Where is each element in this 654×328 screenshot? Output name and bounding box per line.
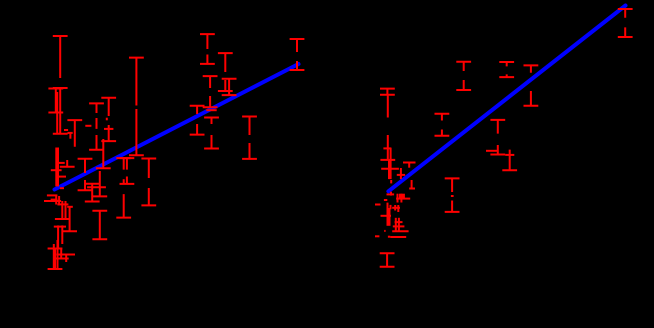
error bar x=211 <box>204 118 219 149</box>
error bar x=498 <box>490 120 505 155</box>
error bar x=60 <box>53 88 68 134</box>
stem <box>69 132 71 138</box>
point dash <box>68 132 73 134</box>
error bar x=55 <box>48 249 63 270</box>
stem <box>55 196 57 205</box>
left panel fit line <box>55 64 299 190</box>
error bar x=92 <box>85 184 100 202</box>
wide cap dash <box>44 200 61 202</box>
cap dash <box>395 221 403 223</box>
stem bit <box>123 179 125 184</box>
cap dash <box>56 254 75 256</box>
stem <box>389 208 391 226</box>
stem bit <box>390 180 392 183</box>
error bar small x=387 <box>380 89 395 95</box>
stem <box>395 218 397 231</box>
error bar x=100a <box>92 171 107 196</box>
right panel fit line <box>388 6 625 192</box>
error bar x=100b <box>92 211 107 240</box>
point dash near line tip <box>60 187 64 189</box>
error bar x=96 <box>89 103 104 149</box>
error bar x=510 <box>502 150 517 171</box>
error bar x=225 <box>218 53 233 91</box>
wide cap dash <box>87 186 106 188</box>
error bar stem thick <box>55 148 57 187</box>
error bar x=387c <box>380 253 395 267</box>
overlapping stem <box>56 92 58 134</box>
overlapping stem <box>57 148 59 187</box>
corner dash <box>409 188 415 190</box>
point dot <box>451 195 454 197</box>
cap dash <box>381 215 392 217</box>
point dash <box>505 154 514 156</box>
error bar x=103 <box>96 139 111 168</box>
point dash <box>104 128 113 130</box>
error bar x=452 <box>445 178 460 212</box>
dot <box>384 230 385 232</box>
stem bit <box>390 205 392 209</box>
point dash <box>64 129 68 131</box>
point dash <box>384 199 387 201</box>
error bar x=149 <box>141 159 156 206</box>
cap dash <box>54 226 66 228</box>
stem <box>397 194 399 203</box>
stem bit <box>390 192 392 196</box>
error bar x=62 <box>55 201 70 219</box>
error bar x=229 <box>222 79 237 95</box>
cap dash <box>57 203 68 205</box>
edge dash <box>375 204 381 206</box>
stem <box>65 255 67 263</box>
error bar x=124 <box>116 158 131 218</box>
stem <box>58 196 60 205</box>
point blob <box>399 194 405 198</box>
error bar x=297 <box>290 39 305 70</box>
cap dash <box>51 169 62 171</box>
cap dash <box>47 194 58 196</box>
dot <box>388 236 390 238</box>
cap dash <box>393 225 405 227</box>
point dash <box>57 176 66 178</box>
stem <box>400 194 402 203</box>
stem bit <box>394 205 396 211</box>
error bar x=56 <box>48 89 63 113</box>
point dash <box>67 206 73 208</box>
cap dash <box>486 150 498 152</box>
error bar x=387 <box>380 95 395 160</box>
point dash <box>392 207 400 209</box>
stem <box>387 203 389 226</box>
error bar x=75 <box>67 120 82 147</box>
error bar x=249 <box>242 117 257 159</box>
stem <box>53 244 55 269</box>
edge dash <box>375 235 379 237</box>
cap dash <box>51 199 58 201</box>
point dash <box>397 174 405 176</box>
point dash <box>85 125 91 127</box>
error bar x=61 <box>54 249 69 259</box>
error bar x=70 <box>62 207 77 231</box>
wide cap dash <box>392 230 408 232</box>
stem bit <box>397 205 399 212</box>
error bar x=442 <box>435 114 450 136</box>
error bar x=197 <box>190 106 205 135</box>
cap dash under line tip <box>387 193 395 195</box>
error bar x=67 <box>60 160 75 167</box>
error bar x=65 <box>65 201 67 219</box>
error bar x=210 <box>203 76 218 107</box>
wide cap dash <box>390 236 406 238</box>
stem <box>390 148 392 179</box>
error bar x=464 <box>456 62 471 90</box>
error bar x=109 <box>101 98 116 141</box>
point dash <box>383 147 391 149</box>
error bar upper segment x=60 <box>53 36 68 78</box>
error bar x=507 <box>499 62 514 77</box>
error bar x=531 <box>524 65 539 105</box>
stem <box>408 163 410 168</box>
wide dash <box>396 198 410 200</box>
stem <box>57 240 59 269</box>
cap dash <box>403 162 416 164</box>
corner stem <box>411 180 413 188</box>
stem <box>57 225 59 248</box>
point dash <box>59 162 65 164</box>
error bar x=136 <box>129 58 144 156</box>
error bar x=127 <box>120 158 135 184</box>
stem <box>398 218 400 231</box>
wide cap dash <box>381 168 399 170</box>
stem <box>388 160 390 179</box>
stem <box>61 225 63 244</box>
error bar x=85 <box>78 159 93 191</box>
stem bit <box>106 118 108 121</box>
stem <box>400 168 402 179</box>
error bar x=207 <box>200 34 215 64</box>
point dash <box>206 109 216 111</box>
error bar x=625 <box>618 9 633 37</box>
